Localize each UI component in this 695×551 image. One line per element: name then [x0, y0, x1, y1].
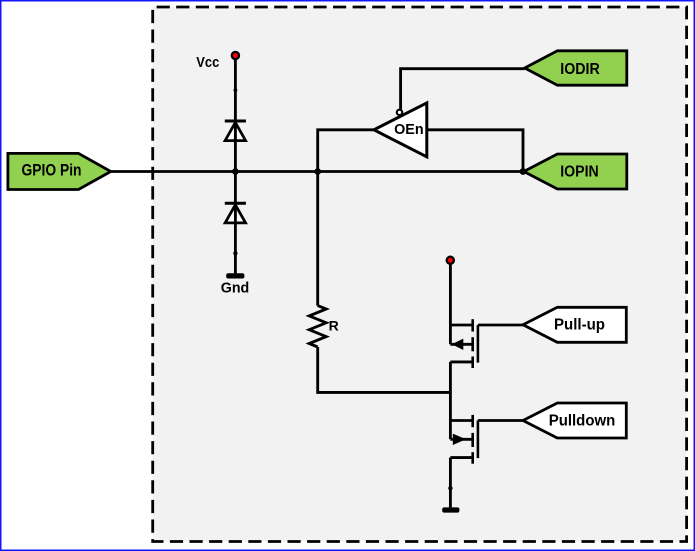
svg-text:Gnd: Gnd: [221, 280, 250, 296]
svg-text:OEn: OEn: [394, 122, 424, 138]
svg-text:Vcc: Vcc: [196, 55, 219, 71]
svg-text:IOPIN: IOPIN: [560, 164, 599, 181]
svg-text:Pull-up: Pull-up: [554, 317, 605, 334]
svg-text:GPIO Pin: GPIO Pin: [22, 161, 82, 179]
svg-text:R: R: [329, 317, 339, 333]
svg-text:Pulldown: Pulldown: [549, 412, 616, 429]
svg-text:IODIR: IODIR: [560, 61, 600, 78]
